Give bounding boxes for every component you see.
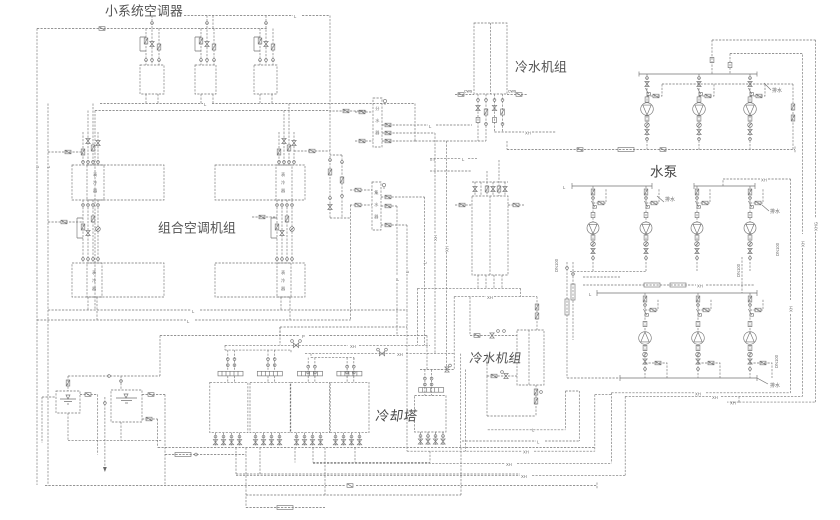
wire condenser collect main y447.5	[158, 447, 595, 449]
svg-text:XH: XH	[487, 295, 493, 300]
wire riser DN100 x742	[741, 257, 743, 293]
wire riser x68	[67, 375, 69, 377]
tower bottom drops T3	[294, 433, 298, 447]
wire XH line y396.4	[625, 395, 802, 397]
pump P1	[641, 74, 662, 150]
wire CH1 drop pipes	[478, 94, 503, 141]
wire tank2 outlet low	[142, 419, 158, 448]
wire riser x815.5	[815, 40, 817, 402]
wire bypass risers x330 x342	[330, 111, 351, 219]
svg-text:CWS: CWS	[464, 90, 473, 94]
wire tower subheader1 y350.1	[225, 345, 291, 353]
tower T3 risers	[307, 358, 317, 379]
wire G1 bottom line y149.5	[507, 147, 795, 153]
svg-text:组合空调机组: 组合空调机组	[158, 221, 236, 236]
svg-text:CWS: CWS	[508, 90, 517, 94]
wire G2 riser to XH y179	[723, 179, 791, 186]
wire tray-to-box stubs	[228, 376, 354, 382]
svg-text:冷却塔: 冷却塔	[375, 409, 419, 424]
wire collector left stubs	[350, 190, 372, 205]
wire bend L1	[488, 391, 580, 430]
wire G1 bypass manifold y84	[662, 83, 793, 85]
valve on line to distributor	[343, 109, 349, 113]
tower T1 tray	[218, 371, 243, 376]
pump P7	[744, 186, 763, 271]
tower T4 tray	[337, 371, 362, 376]
tower T4 risers	[346, 358, 356, 379]
wire bend L2	[462, 391, 579, 441]
wire tower subheader2 y357.6	[311, 354, 354, 360]
svg-text:XH: XH	[712, 395, 718, 400]
water distributor 分水器	[373, 98, 382, 147]
svg-text:小系统空调器: 小系统空调器	[105, 4, 183, 19]
water tank TK2	[111, 390, 142, 422]
wire G3 bottom line y378	[620, 375, 757, 381]
tower bottom drops T5	[418, 432, 422, 446]
water collector 集水器	[372, 182, 381, 230]
wire left standpipe join	[567, 377, 620, 379]
valve cluster AHU1	[140, 16, 161, 66]
wire drain drop x104.9 with arrow	[104, 397, 106, 467]
wire bottom line y495	[246, 494, 461, 496]
wire riser x790.5	[792, 84, 794, 150]
wire distributor right stub3	[382, 140, 415, 142]
tower T3 tray	[298, 371, 323, 376]
wire CH1 flange stubs CWS	[455, 94, 527, 96]
drain note G3	[757, 378, 768, 384]
wire return main L3 y=320	[37, 319, 351, 321]
wire tank2 feed	[120, 376, 122, 390]
wire bottom main y485.5	[45, 483, 597, 489]
wire XH line y296.6	[454, 296, 537, 298]
svg-text:XH: XH	[521, 474, 527, 479]
wire CH1 chilled water main y141	[415, 140, 486, 142]
drain note G2a	[657, 196, 664, 202]
wire tower header1 y345.3	[225, 344, 430, 346]
svg-text:排水: 排水	[665, 196, 675, 203]
cooling tower T4 box	[330, 382, 369, 432]
svg-text:排水: 排水	[770, 382, 780, 389]
tower T1 risers	[226, 350, 236, 371]
drain note G2b	[762, 205, 769, 211]
tower T2 tray	[257, 371, 282, 376]
wire top supply main L2	[184, 16, 330, 29]
surface cooler box row1 left	[87, 165, 104, 200]
wire tank2 outlet top	[142, 395, 165, 486]
chiller unit 3 box	[517, 330, 544, 385]
coil unit row1 right box	[215, 165, 305, 200]
valve cluster AHU3	[254, 16, 275, 66]
svg-text:冷水机组: 冷水机组	[469, 351, 523, 366]
svg-text:DN100: DN100	[775, 242, 780, 256]
svg-text:XH: XH	[506, 462, 512, 467]
wire XH line y402.1	[727, 401, 816, 403]
svg-text:P: P	[395, 278, 400, 281]
svg-text:XH: XH	[695, 391, 701, 396]
svg-text:XH: XH	[397, 352, 403, 357]
wire riser x424.5	[424, 197, 426, 345]
wire CH2 side stubs	[455, 204, 524, 206]
svg-text:DN100: DN100	[774, 354, 779, 368]
wire left border riser	[36, 29, 38, 486]
svg-text:DN100: DN100	[736, 263, 741, 277]
pump P3	[744, 74, 765, 150]
wire G2 header right y186	[694, 183, 755, 189]
pump P5	[640, 186, 659, 271]
svg-text:P: P	[302, 334, 305, 339]
svg-text:XH: XH	[523, 450, 529, 455]
wire stub row1 right	[294, 150, 330, 152]
wire tower5 subheader y369.5	[420, 369, 454, 371]
wire collect main y474 part	[236, 473, 520, 475]
valve pair on riser x537	[535, 304, 539, 310]
wire riser x435	[434, 133, 436, 354]
svg-text:XH: XH	[789, 306, 794, 312]
svg-text:冷: 冷	[281, 179, 285, 186]
wire bottom verticals	[236, 448, 461, 508]
wire distributor right stub1 to L	[382, 124, 472, 126]
pump P2	[693, 74, 714, 150]
svg-text:XHG: XHG	[814, 222, 819, 231]
svg-text:XH: XH	[801, 241, 806, 247]
svg-text:XH: XH	[697, 284, 703, 289]
wire condenser main y288.3	[418, 288, 521, 345]
wire bottom line y507.5	[246, 507, 325, 509]
wire P main y335.5	[160, 336, 427, 377]
wire CH3 drain cluster	[487, 376, 536, 416]
chiller unit 2 box	[472, 196, 508, 275]
wire distributor left stubs	[355, 112, 373, 141]
AHU unit 2 box	[195, 65, 216, 94]
water tank TK1	[56, 391, 80, 413]
svg-text:XH: XH	[525, 131, 531, 136]
wire AHU2 drops	[201, 94, 213, 104]
svg-text:水泵: 水泵	[650, 165, 678, 180]
wire G1 header y74	[639, 72, 757, 77]
svg-text:排水: 排水	[770, 208, 780, 215]
wire riser x95	[94, 111, 96, 311]
wire CH3 inlet y335.5	[470, 297, 517, 336]
svg-text:冷: 冷	[281, 277, 285, 284]
svg-text:冷: 冷	[93, 179, 97, 186]
wire G3 header y293	[597, 290, 757, 296]
AHU unit 1 box	[140, 65, 164, 94]
svg-text:XH: XH	[433, 235, 438, 241]
wire collector right stubs	[381, 197, 425, 225]
tower bottom drops T1	[213, 433, 217, 447]
wire riser x712	[711, 40, 713, 74]
cooling tower T2 box	[250, 382, 290, 432]
tower T2 risers	[267, 350, 277, 371]
wire T5 tray stubs	[425, 391, 432, 396]
svg-text:XH: XH	[730, 401, 736, 406]
wire top return main	[37, 28, 267, 30]
pump P8	[639, 293, 667, 378]
surface cooler box row1 right	[276, 165, 292, 200]
wire row2 left drops	[88, 297, 97, 320]
wire riser x350.5	[350, 205, 352, 320]
wire riser x415 from main	[414, 104, 416, 142]
pump P6	[691, 186, 710, 271]
cooling tower T5 box	[415, 396, 447, 433]
surface cooler box row2 right	[277, 263, 291, 297]
surface cooler box row2 left	[87, 263, 102, 297]
wire tank1 feed	[67, 376, 69, 391]
wire L line y158.7	[430, 158, 477, 160]
wire row2 right drops	[281, 297, 290, 320]
tower T5 tray	[419, 388, 444, 393]
wire riser x802.5	[802, 55, 804, 397]
pump P10	[744, 293, 772, 378]
coil unit row1 left box	[72, 165, 164, 200]
wire riser x507 to chiller main	[506, 141, 508, 150]
valve cluster row1 right coil	[277, 132, 296, 165]
wire pump line y454.5	[165, 454, 246, 456]
valve cluster AHU2	[195, 16, 216, 66]
wire riser x330 to distributor	[330, 16, 367, 112]
wire misc risers above towers	[279, 327, 281, 336]
chiller unit 1 box	[474, 23, 507, 94]
cooling tower T1 box	[210, 382, 248, 432]
svg-text:DN100: DN100	[554, 258, 559, 272]
svg-text:XH: XH	[350, 344, 356, 349]
tower bottom drops T4	[333, 433, 337, 447]
wire AHU3 drops	[260, 94, 272, 104]
svg-text:冷: 冷	[92, 277, 96, 284]
wire tank1 outlet	[80, 395, 98, 455]
pump P4	[587, 186, 606, 271]
wire top right line2	[730, 53, 803, 55]
drain note G1	[764, 83, 771, 90]
wire lines into CH2	[430, 160, 472, 171]
valve cluster row2 left coil	[77, 200, 100, 263]
wire distributor right stub2	[382, 132, 435, 134]
tower T5 risers	[424, 370, 434, 391]
wire XH line y392.8	[611, 392, 790, 394]
wire flow meter line y285	[583, 284, 755, 286]
wire G2 bottom ties	[570, 272, 646, 277]
wire riser P x397	[396, 206, 398, 336]
wire tank top line y376	[68, 375, 160, 377]
cooling tower T3 box	[291, 382, 330, 432]
wire G2 header left y186	[572, 183, 652, 189]
wire left standpipes x567 x573	[567, 262, 573, 378]
wire bend y475.3	[236, 396, 625, 475]
svg-text:XH: XH	[761, 178, 767, 183]
svg-text:排水: 排水	[772, 87, 782, 94]
svg-text:XH: XH	[445, 246, 450, 252]
wire bend y463.3	[313, 393, 611, 464]
wire stub row2 left	[48, 221, 83, 223]
wire main y327	[280, 327, 407, 345]
AHU unit 3 box	[254, 65, 277, 94]
wire stub row1 left	[48, 151, 83, 153]
wire main L1 y=103.5	[100, 103, 415, 105]
wire CH3 inlet2 y376	[487, 354, 517, 376]
valve cluster row1 left coil	[81, 132, 100, 165]
wire left small riser x42	[42, 397, 56, 443]
wire riser x730	[729, 54, 731, 75]
wire main y=110.5	[95, 110, 330, 112]
wire CH1 right line XH y132	[495, 131, 557, 133]
coil unit row2 left box	[72, 263, 164, 297]
wire AHU1 drops	[146, 94, 158, 104]
wire riser x446.5	[446, 141, 448, 370]
wire CH2 bottom drops	[478, 275, 502, 288]
wire bend XH y451.2	[407, 395, 611, 452]
valve cluster CH2 top	[472, 160, 508, 196]
wire riser x407	[406, 225, 408, 451]
pump P9	[692, 293, 720, 378]
valve cluster row2 right coil	[271, 200, 294, 263]
svg-text:冷水机组: 冷水机组	[515, 60, 567, 75]
coil unit row2 right box	[215, 263, 305, 297]
wire tower header2 y353.6	[305, 353, 455, 355]
wire stub row2 right	[252, 216, 277, 218]
wire left inner riser x48	[47, 104, 49, 486]
wire return main L4 y=310	[48, 309, 407, 311]
wire collect main y462.5 part	[313, 462, 430, 464]
wire tank bottom line y440.6	[68, 413, 162, 441]
wire top right line1	[712, 39, 816, 41]
tower bottom drops T2	[253, 433, 257, 447]
